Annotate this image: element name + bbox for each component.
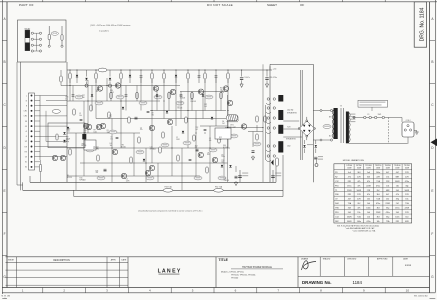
- svg-text:FS3 T4A: FS3 T4A: [164, 185, 172, 188]
- svg-text:R51: R51: [335, 212, 338, 214]
- svg-text:3k3: 3k3: [377, 217, 380, 219]
- svg-text:15k: 15k: [357, 212, 360, 214]
- svg-text:3k3: 3k3: [221, 162, 224, 164]
- svg-text:CH2: CH2: [24, 116, 27, 118]
- svg-text:4k7: 4k7: [386, 194, 389, 196]
- svg-text:R9: R9: [223, 178, 225, 180]
- svg-text:47u: 47u: [221, 92, 224, 94]
- svg-text:R2: R2: [335, 176, 337, 178]
- svg-text:150W: 150W: [376, 168, 381, 170]
- svg-text:F1: F1: [368, 114, 370, 116]
- svg-text:1N4148: 1N4148: [180, 97, 186, 99]
- svg-text:TFX150: TFX150: [375, 165, 381, 167]
- svg-text:BC556: BC556: [81, 145, 86, 147]
- svg-text:DRAWN: DRAWN: [301, 257, 309, 260]
- svg-text:47k: 47k: [357, 181, 360, 183]
- svg-text:47k: 47k: [348, 176, 351, 178]
- svg-text:1N4148: 1N4148: [190, 101, 196, 103]
- svg-text:in parallel ): in parallel ): [99, 30, 109, 32]
- svg-text:DATE: DATE: [403, 257, 409, 260]
- svg-text:S2: S2: [25, 167, 27, 169]
- svg-text:B: B: [4, 60, 6, 64]
- svg-text:3k3: 3k3: [348, 208, 351, 210]
- svg-text:R16: R16: [80, 177, 83, 179]
- svg-text:560R: 560R: [357, 190, 362, 192]
- svg-text:1k0: 1k0: [82, 97, 85, 99]
- svg-text:R9: R9: [107, 130, 109, 132]
- svg-text:3k3: 3k3: [396, 190, 399, 192]
- svg-text:560R: 560R: [395, 181, 400, 183]
- svg-text:47k: 47k: [396, 194, 399, 196]
- svg-text:KM. 123/mm A3: KM. 123/mm A3: [414, 294, 427, 297]
- svg-text:TRACED: TRACED: [323, 257, 331, 260]
- svg-text:560R: 560R: [405, 190, 410, 192]
- svg-text:R27: R27: [82, 95, 85, 97]
- svg-text:CHECKED: CHECKED: [347, 258, 357, 260]
- svg-text:1k0: 1k0: [367, 203, 370, 205]
- svg-text:150W: 150W: [357, 168, 362, 170]
- svg-text:3k3: 3k3: [396, 212, 399, 214]
- svg-text:TR2: TR2: [195, 145, 198, 147]
- svg-text:1k0: 1k0: [110, 145, 113, 147]
- svg-text:10k: 10k: [386, 185, 389, 187]
- svg-text:470u: 470u: [405, 181, 409, 183]
- svg-text:OF: OF: [300, 3, 304, 7]
- svg-text:16Ω 8Ω: 16Ω 8Ω: [287, 110, 294, 112]
- svg-text:DRG. No. 1184: DRG. No. 1184: [419, 7, 425, 41]
- svg-text:220R: 220R: [376, 212, 381, 214]
- svg-text:1n0: 1n0: [367, 172, 370, 174]
- svg-text:100n: 100n: [395, 217, 399, 219]
- svg-text:15k: 15k: [367, 199, 370, 201]
- svg-text:10k: 10k: [377, 221, 380, 223]
- svg-text:560R: 560R: [347, 217, 352, 219]
- svg-text:F: F: [4, 232, 6, 236]
- svg-text:100n: 100n: [94, 131, 98, 133]
- svg-text:L: L: [26, 95, 27, 97]
- svg-text:220R: 220R: [385, 203, 390, 205]
- svg-text:TR5: TR5: [221, 160, 224, 162]
- svg-text:C17: C17: [109, 115, 112, 117]
- svg-text:4k7: 4k7: [96, 91, 99, 93]
- svg-text:33p: 33p: [396, 199, 399, 201]
- svg-text:S1: S1: [25, 162, 27, 164]
- svg-text:47k: 47k: [357, 185, 360, 187]
- svg-text:R1: R1: [67, 175, 69, 177]
- svg-text:10: 10: [406, 289, 410, 293]
- svg-text:DP100: DP100: [347, 165, 353, 167]
- svg-text:3k3: 3k3: [357, 172, 360, 174]
- svg-text:D4: D4: [110, 143, 112, 145]
- svg-text:C9: C9: [177, 106, 179, 108]
- svg-text:TR6: TR6: [335, 208, 339, 210]
- svg-text:2k2: 2k2: [386, 199, 389, 201]
- svg-text:470u: 470u: [376, 203, 380, 205]
- svg-text:R52: R52: [180, 95, 183, 97]
- svg-text:FS2 T4A: FS2 T4A: [215, 185, 223, 188]
- svg-text:33p: 33p: [386, 208, 389, 210]
- svg-text:( Dashed/unnamed components n: ( Dashed/unnamed components not fitted t…: [138, 209, 203, 212]
- svg-text:220R: 220R: [405, 208, 410, 210]
- svg-text:100W: 100W: [405, 168, 410, 170]
- svg-text:TF/150: TF/150: [404, 165, 410, 167]
- svg-text:DRAWING No.: DRAWING No.: [302, 280, 332, 285]
- svg-text:R30: R30: [335, 194, 338, 196]
- svg-text:TR3: TR3: [83, 130, 86, 132]
- svg-text:CH1: CH1: [24, 111, 27, 113]
- svg-text:T1: T1: [335, 190, 337, 192]
- svg-text:C12: C12: [335, 181, 338, 183]
- svg-text:R61: R61: [220, 87, 223, 89]
- svg-text:C6: C6: [110, 137, 112, 139]
- svg-text:10k: 10k: [79, 115, 82, 117]
- svg-text:470u: 470u: [366, 221, 370, 223]
- svg-text:47k: 47k: [367, 181, 370, 183]
- svg-text:470u: 470u: [376, 185, 380, 187]
- svg-text:D6: D6: [221, 154, 223, 156]
- svg-text:8/3/99: 8/3/99: [405, 265, 412, 267]
- svg-text:470u: 470u: [386, 212, 390, 214]
- svg-text:47u: 47u: [140, 129, 143, 131]
- svg-text:CON 4: CON 4: [406, 120, 411, 122]
- svg-text:2k2: 2k2: [377, 190, 380, 192]
- svg-text:1k0: 1k0: [405, 217, 408, 219]
- svg-text:220R: 220R: [366, 185, 371, 187]
- svg-text:3k3: 3k3: [204, 106, 207, 108]
- svg-text:F: F: [431, 232, 433, 236]
- svg-text:3k3: 3k3: [377, 194, 380, 196]
- svg-text:C2: C2: [79, 113, 81, 115]
- svg-text:BC556: BC556: [67, 177, 72, 179]
- svg-text:15k: 15k: [386, 176, 389, 178]
- svg-text:1n0: 1n0: [348, 172, 351, 174]
- svg-text:22k: 22k: [220, 89, 223, 91]
- svg-text:R44: R44: [95, 170, 98, 172]
- svg-text:TW: TW: [24, 146, 27, 148]
- svg-text:Models:- DP100, DP150,: Models:- DP100, DP150,: [221, 272, 244, 274]
- svg-text:TITLE: TITLE: [219, 258, 229, 262]
- svg-text:2k2: 2k2: [357, 203, 360, 205]
- svg-text:BC546: BC546: [121, 147, 126, 149]
- svg-text:N.B. R.15y fitted RA/TF4100: N.B. R.15y fitted RA/TF4100 ONLY (S3 510…: [337, 224, 379, 227]
- svg-text:330p: 330p: [66, 141, 70, 143]
- svg-text:47k: 47k: [367, 194, 370, 196]
- svg-text:TR2: TR2: [195, 127, 198, 129]
- svg-text:33k: 33k: [107, 132, 110, 134]
- svg-text:1n0: 1n0: [96, 148, 99, 150]
- svg-text:4k7: 4k7: [348, 199, 351, 201]
- svg-text:150W: 150W: [395, 168, 400, 170]
- svg-text:BC546: BC546: [223, 147, 228, 149]
- svg-text:33k: 33k: [151, 114, 154, 116]
- svg-text:R16: R16: [67, 128, 70, 130]
- svg-text:R44: R44: [223, 145, 226, 147]
- svg-text:TF4150: TF4150: [385, 165, 391, 167]
- svg-text:C14: C14: [335, 217, 338, 219]
- svg-text:2k2: 2k2: [396, 203, 399, 205]
- svg-text:1k0: 1k0: [367, 212, 370, 214]
- svg-text:TFX100, TFX150, TF4150,: TFX100, TFX150, TF4150,: [231, 275, 256, 277]
- svg-text:C18 4700u: C18 4700u: [269, 77, 277, 79]
- svg-text:15k: 15k: [405, 199, 408, 201]
- svg-text:APPD: APPD: [111, 259, 117, 262]
- svg-text:DESCRIPTION: DESCRIPTION: [53, 259, 70, 262]
- svg-text:33k: 33k: [95, 172, 98, 174]
- svg-text:47u: 47u: [65, 99, 68, 101]
- svg-text:4k7: 4k7: [396, 172, 399, 174]
- svg-text:SW1: SW1: [378, 114, 382, 116]
- svg-text:R44: R44: [335, 203, 338, 205]
- svg-text:2k2: 2k2: [195, 147, 198, 149]
- svg-text:560R: 560R: [347, 221, 352, 223]
- svg-text:E: E: [4, 189, 6, 193]
- svg-text:DR1: DR1: [230, 125, 233, 127]
- svg-text:C2: C2: [126, 178, 128, 180]
- svg-text:100n: 100n: [221, 156, 225, 158]
- svg-text:33p: 33p: [386, 217, 389, 219]
- svg-text:( R41 + R47a are 100k 4W o: ( R41 + R47a are 100k 4W on 150W version…: [90, 25, 130, 27]
- svg-text:C9: C9: [335, 199, 337, 201]
- svg-text:47k: 47k: [209, 140, 212, 142]
- svg-text:TwTr: TwTr: [287, 127, 291, 129]
- svg-text:2k2: 2k2: [195, 129, 198, 131]
- svg-text:2k2: 2k2: [109, 117, 112, 119]
- svg-text:E: E: [431, 189, 433, 193]
- svg-text:1184: 1184: [353, 280, 363, 285]
- svg-text:C16 47u: C16 47u: [244, 77, 250, 79]
- svg-text:3k3: 3k3: [348, 212, 351, 214]
- svg-text:R62: R62: [335, 221, 338, 223]
- svg-text:TR5: TR5: [121, 145, 124, 147]
- svg-text:15k: 15k: [110, 138, 113, 140]
- svg-text:C9: C9: [207, 152, 209, 154]
- svg-text:R106: R106: [53, 33, 57, 35]
- svg-text:3k3: 3k3: [377, 208, 380, 210]
- svg-text:8k2: 8k2: [207, 154, 210, 156]
- svg-text:BC546: BC546: [177, 108, 182, 110]
- svg-text:TF4100: TF4100: [231, 278, 239, 280]
- svg-text:1N4148: 1N4148: [223, 180, 229, 182]
- svg-text:C21: C21: [96, 89, 99, 91]
- svg-text:SPEAKERS: SPEAKERS: [286, 138, 296, 141]
- svg-text:B: B: [431, 60, 433, 64]
- svg-text:TFX100: TFX100: [365, 165, 371, 167]
- svg-text:FS1: FS1: [335, 185, 338, 187]
- svg-text:M. W. 186: M. W. 186: [2, 295, 11, 297]
- svg-text:C2: C2: [176, 137, 178, 139]
- svg-text:L A N E Y: L A N E Y: [158, 269, 181, 275]
- svg-text:TR2: TR2: [190, 99, 193, 101]
- svg-text:* some 100W/150W use T5A: * some 100W/150W use T5A: [352, 229, 376, 232]
- svg-text:470u: 470u: [395, 208, 399, 210]
- svg-text:TF4100: TF4100: [394, 165, 400, 167]
- svg-text:SHEET: SHEET: [267, 3, 277, 7]
- svg-text:47k: 47k: [357, 208, 360, 210]
- svg-text:1k0: 1k0: [396, 185, 399, 187]
- svg-text:MODEL VARIATIONS: MODEL VARIATIONS: [343, 159, 365, 162]
- svg-text:R1: R1: [335, 172, 337, 174]
- svg-text:+24v: +24v: [273, 68, 277, 70]
- svg-text:DO NOT SCALE: DO NOT SCALE: [207, 3, 233, 7]
- svg-text:APPROVED: APPROVED: [377, 257, 388, 260]
- svg-text:DP150: DP150: [356, 165, 362, 167]
- svg-text:C11: C11: [150, 147, 153, 149]
- svg-text:TRI/TStW POWER MODULE: TRI/TStW POWER MODULE: [242, 266, 272, 269]
- svg-text:3k3: 3k3: [367, 176, 370, 178]
- svg-text:100n: 100n: [376, 172, 380, 174]
- svg-text:SPEAKERS: SPEAKERS: [287, 112, 297, 115]
- svg-text:D6: D6: [93, 146, 95, 148]
- svg-text:220R: 220R: [347, 190, 352, 192]
- svg-text:R9: R9: [66, 137, 68, 139]
- svg-text:8k2: 8k2: [67, 130, 70, 132]
- svg-text:PART OF: PART OF: [19, 3, 34, 7]
- svg-text:D6: D6: [222, 121, 224, 123]
- svg-text:R9: R9: [94, 129, 96, 131]
- svg-text:TR3: TR3: [81, 143, 84, 145]
- svg-text:TR3: TR3: [65, 97, 68, 99]
- svg-text:100n: 100n: [366, 208, 370, 210]
- svg-text:ISSUE: ISSUE: [8, 260, 15, 262]
- svg-text:100W: 100W: [347, 168, 352, 170]
- svg-text:R22: R22: [204, 104, 207, 106]
- svg-text:C9: C9: [209, 138, 211, 140]
- svg-text:C4: C4: [140, 127, 142, 129]
- svg-text:33p: 33p: [405, 185, 408, 187]
- svg-text:4k7: 4k7: [386, 172, 389, 174]
- svg-text:1n0: 1n0: [367, 217, 370, 219]
- svg-text:68k: 68k: [219, 139, 222, 141]
- svg-text:R22: R22: [219, 137, 222, 139]
- svg-text:R44: R44: [110, 90, 113, 92]
- svg-text:2k2: 2k2: [222, 123, 225, 125]
- svg-text:D4: D4: [96, 147, 98, 149]
- svg-text:470u: 470u: [347, 185, 351, 187]
- svg-text:100n: 100n: [357, 221, 361, 223]
- svg-text:D8: D8: [151, 112, 153, 114]
- svg-text:100W: 100W: [386, 168, 391, 170]
- svg-text:100W: 100W: [366, 168, 371, 170]
- svg-text:DATE: DATE: [121, 259, 127, 262]
